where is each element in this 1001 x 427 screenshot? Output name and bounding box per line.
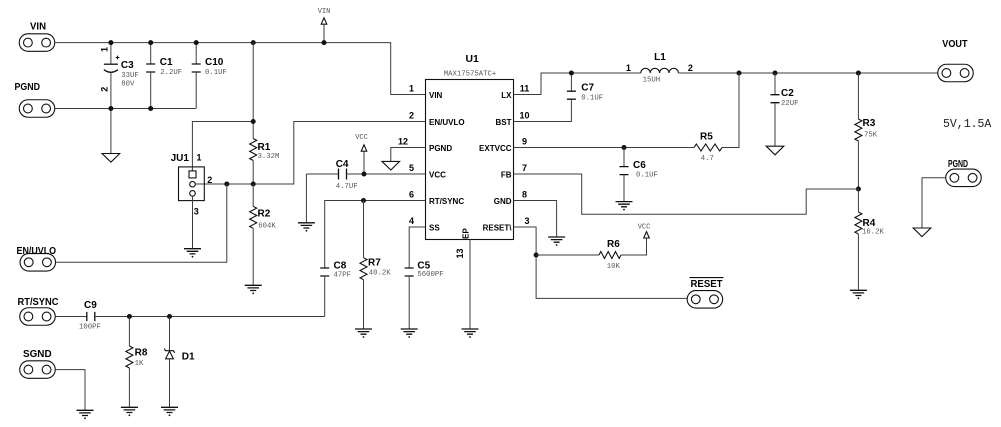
connector VIN (J-VIN) <box>19 22 55 52</box>
svg-text:0.1UF: 0.1UF <box>581 94 603 102</box>
svg-text:VCC: VCC <box>355 134 368 142</box>
svg-text:R5: R5 <box>700 131 713 142</box>
ground below R2 <box>245 285 262 294</box>
svg-text:C7: C7 <box>581 82 594 93</box>
resistor R4 16.2K <box>855 189 885 290</box>
svg-text:3.32M: 3.32M <box>258 153 280 161</box>
wire U1 pin 9 EXTVCC to R5 <box>514 147 695 149</box>
svg-text:RESET: RESET <box>691 279 723 290</box>
ground PGND triangle below C3 <box>102 109 120 163</box>
junction RT/SYNC line at R8 <box>127 314 132 319</box>
connector VOUT <box>938 39 974 82</box>
wire PGND rail <box>55 108 196 110</box>
U1 pin 4 SS <box>409 216 440 233</box>
capacitor C6 0.1UF <box>620 148 658 202</box>
svg-text:12: 12 <box>398 136 408 146</box>
svg-text:6: 6 <box>409 189 414 199</box>
resistor R1 3.32M <box>250 139 280 185</box>
junction top rail at C1 <box>148 40 153 45</box>
svg-text:2: 2 <box>207 175 212 185</box>
U1 pin 8 GND <box>494 189 527 206</box>
wire U1 pin6 RT/SYNC to C8 <box>325 201 426 269</box>
U1 pin 6 RT/SYNC <box>409 189 464 206</box>
U1 pin 9 EXTVCC <box>479 136 527 153</box>
svg-text:4: 4 <box>409 216 414 226</box>
svg-text:0.1UF: 0.1UF <box>636 171 658 179</box>
svg-text:L1: L1 <box>654 52 666 63</box>
capacitor C2 22UF <box>771 73 799 146</box>
svg-text:VCC: VCC <box>429 170 446 179</box>
svg-text:U1: U1 <box>466 54 480 65</box>
connector PGND (left) <box>15 82 55 117</box>
svg-text:C5: C5 <box>417 261 430 272</box>
resistor R2 604K <box>250 184 277 285</box>
capacitor C1 2.2UF <box>146 43 182 109</box>
ground below C4 <box>298 223 315 232</box>
svg-text:33UF: 33UF <box>121 72 139 80</box>
wire RESET net U1 pin 3 to connector <box>514 227 688 298</box>
svg-text:D1: D1 <box>182 351 195 362</box>
svg-text:4.7: 4.7 <box>701 155 714 163</box>
svg-text:VCC: VCC <box>638 223 651 231</box>
ground below R7 <box>355 329 372 338</box>
svg-text:16.2K: 16.2K <box>862 229 885 237</box>
capacitor C3 (polarized 33UF 80V) <box>99 43 138 109</box>
capacitor C5 5600PF <box>405 261 444 330</box>
svg-text:2: 2 <box>688 63 693 73</box>
svg-text:VIN: VIN <box>318 8 331 16</box>
svg-text:3: 3 <box>524 216 529 226</box>
svg-text:40.2K: 40.2K <box>369 269 392 277</box>
svg-text:RT/SYNC: RT/SYNC <box>18 297 59 308</box>
junction bottom rail at C1 <box>148 106 153 111</box>
power ground PGND triangle at U1 pin 12 <box>382 148 426 171</box>
power symbol VIN (top) <box>318 8 331 43</box>
svg-text:100PF: 100PF <box>79 323 101 331</box>
IC U1 MAX17575ATC+ body <box>426 54 514 240</box>
svg-text:R7: R7 <box>368 258 381 269</box>
U1 pin 10 BST <box>496 110 530 127</box>
svg-text:75K: 75K <box>864 132 878 140</box>
svg-text:4.7UF: 4.7UF <box>336 183 358 191</box>
junction FB node at R3/R4 <box>856 187 861 192</box>
resistor R8 1K <box>126 317 148 408</box>
junction JU1 pin2 line at R1/R2 <box>251 182 256 187</box>
junction RESET node at R6 <box>534 253 539 258</box>
wire VOUT rail L1 to VOUT connector <box>678 72 937 74</box>
wire U1 pin4 SS to C5 <box>409 227 425 268</box>
junction pin6 line at R7 <box>361 198 366 203</box>
junction EXTVCC line at C6 <box>622 145 627 150</box>
capacitor C10 0.1UF <box>192 43 227 109</box>
svg-text:0.1UF: 0.1UF <box>205 69 227 77</box>
U1 pin 3 RESET <box>483 216 530 233</box>
svg-text:R1: R1 <box>258 142 271 153</box>
svg-text:22UF: 22UF <box>781 100 799 108</box>
junction VOUT rail at R5 riser <box>737 71 742 76</box>
svg-text:VOUT: VOUT <box>942 39 967 50</box>
junction VOUT rail at R3 <box>856 71 861 76</box>
svg-text:R6: R6 <box>607 239 620 250</box>
inductor L1 15UH <box>626 52 693 85</box>
wire U1 pin 8 GND to ground <box>514 201 557 238</box>
svg-text:7: 7 <box>522 163 527 173</box>
power ground PGND triangle below C2 <box>766 146 784 155</box>
junction top rail at R1 branch <box>251 40 256 45</box>
svg-text:R3: R3 <box>863 118 876 129</box>
svg-text:JU1: JU1 <box>171 153 190 164</box>
svg-text:8: 8 <box>522 189 527 199</box>
svg-text:BST: BST <box>496 118 512 127</box>
ground below JU1 pin 3 <box>184 249 201 258</box>
svg-text:11: 11 <box>520 83 530 93</box>
power ground PGND triangle right <box>913 228 931 237</box>
ground below pin 8 <box>548 237 565 246</box>
U1 pin 2 EN/UVLO <box>409 110 465 127</box>
svg-text:C1: C1 <box>160 57 173 68</box>
svg-text:C2: C2 <box>781 88 794 99</box>
svg-text:10: 10 <box>519 110 529 120</box>
svg-text:RESET\: RESET\ <box>483 223 513 232</box>
wire JU1 pin3 to ground <box>192 196 194 249</box>
ground below EP <box>462 329 479 338</box>
svg-text:2.2UF: 2.2UF <box>160 69 182 77</box>
connector EN/UVLO <box>17 246 57 271</box>
svg-text:VIN: VIN <box>429 91 443 100</box>
wire C4 left to ground <box>305 174 307 223</box>
svg-text:PGND: PGND <box>948 159 968 170</box>
svg-text:15UH: 15UH <box>643 77 661 85</box>
svg-text:RT/SYNC: RT/SYNC <box>429 197 464 206</box>
svg-text:5600PF: 5600PF <box>417 271 443 279</box>
svg-text:C9: C9 <box>84 300 97 311</box>
resistor R6 10K <box>536 238 646 271</box>
ground below D1 <box>161 407 178 416</box>
capacitor C9 100PF (series) <box>55 300 324 331</box>
U1 pin 12 PGND <box>398 136 452 153</box>
U1 pin 11 LX <box>501 83 529 100</box>
svg-text:2: 2 <box>99 87 109 92</box>
svg-text:EXTVCC: EXTVCC <box>479 144 512 153</box>
svg-text:R4: R4 <box>863 218 876 229</box>
svg-text:VIN: VIN <box>30 22 46 33</box>
svg-text:C4: C4 <box>336 159 349 170</box>
svg-text:2: 2 <box>409 110 414 120</box>
diode D1 (zener) <box>164 317 195 408</box>
junction C4 line at VCC <box>362 172 367 177</box>
wire U1 pin 11 LX to L1 <box>514 73 641 95</box>
svg-text:80V: 80V <box>121 81 135 89</box>
svg-text:5V,1.5A: 5V,1.5A <box>943 118 991 131</box>
wire EN/UVLO segment to U1 pin 2 <box>195 122 425 185</box>
svg-text:PGND: PGND <box>429 144 452 153</box>
svg-text:EN/UVLO: EN/UVLO <box>17 246 57 257</box>
svg-text:MAX17575ATC+: MAX17575ATC+ <box>444 71 497 79</box>
resistor R5 4.7 <box>694 73 739 163</box>
U1 pin 7 FB <box>501 163 527 180</box>
ground below SGND <box>77 410 94 419</box>
svg-text:SS: SS <box>429 223 440 232</box>
U1 pin 13 EP pad lead <box>455 228 471 330</box>
svg-text:C8: C8 <box>334 261 347 272</box>
wire SGND to ground <box>55 370 85 411</box>
svg-text:LX: LX <box>501 91 512 100</box>
svg-text:C6: C6 <box>633 160 646 171</box>
svg-text:C10: C10 <box>205 57 224 68</box>
svg-text:EN/UVLO: EN/UVLO <box>429 118 465 127</box>
svg-text:C3: C3 <box>121 60 134 71</box>
svg-text:10K: 10K <box>607 263 621 271</box>
junction top rail at C3 <box>108 40 113 45</box>
svg-text:1: 1 <box>99 47 109 52</box>
capacitor C4 4.7UF (series) <box>306 159 425 191</box>
power symbol VCC at R6 <box>638 223 651 238</box>
svg-text:GND: GND <box>494 197 512 206</box>
svg-text:1: 1 <box>196 152 201 162</box>
junction bottom rail at C3 <box>108 106 113 111</box>
capacitor C8 47PF <box>320 261 351 317</box>
svg-text:EP: EP <box>462 228 471 239</box>
svg-text:3: 3 <box>194 207 199 217</box>
svg-text:1: 1 <box>626 63 631 73</box>
wire FB U1 pin 7 to R3/R4 node <box>514 174 859 214</box>
svg-text:1: 1 <box>409 83 414 93</box>
ground below R4 <box>850 290 867 299</box>
junction top rail at C10 <box>194 40 199 45</box>
svg-text:9: 9 <box>522 136 527 146</box>
svg-text:47PF: 47PF <box>334 271 352 279</box>
svg-text:R2: R2 <box>258 209 271 220</box>
wire VIN branch vertical to R1 <box>252 43 254 139</box>
connector SGND <box>20 349 56 378</box>
ground below R8 <box>121 407 138 416</box>
svg-text:PGND: PGND <box>15 82 41 93</box>
svg-text:13: 13 <box>455 248 465 258</box>
junction RT/SYNC line at D1 <box>167 314 172 319</box>
resistor R7 40.2K <box>360 201 391 330</box>
svg-text:1K: 1K <box>135 360 144 368</box>
ground below C5 <box>401 329 418 338</box>
connector RT/SYNC <box>18 297 59 325</box>
svg-text:SGND: SGND <box>23 349 52 360</box>
svg-text:5: 5 <box>409 163 414 173</box>
wire EN/UVLO segment JU1 pin1 riser <box>192 122 253 172</box>
resistor R3 75K <box>855 73 878 189</box>
svg-text:R8: R8 <box>135 348 148 359</box>
junction JU1 pin2 line at EN/UVLO riser <box>224 182 229 187</box>
wire VIN rail: connector to U1 pin 1 <box>55 43 426 95</box>
connector PGND (right) <box>946 159 982 187</box>
wire PGND right connector to triangle <box>922 178 946 228</box>
U1 pin 5 VCC <box>409 163 446 180</box>
wire EN/UVLO connector to JU1 pin2 line <box>56 184 227 262</box>
connector RESET (output) <box>687 278 723 308</box>
capacitor C7 0.1UF <box>514 73 604 122</box>
ground below C6 <box>616 202 633 211</box>
junction VOUT rail at C2 <box>773 71 778 76</box>
junction top rail at VIN symbol <box>322 40 327 45</box>
junction EN node at R1 top <box>251 119 256 124</box>
jumper JU1 <box>171 152 213 216</box>
U1 pin 1 VIN <box>409 83 443 100</box>
svg-text:604K: 604K <box>258 222 276 230</box>
junction LX rail at C7 <box>569 71 574 76</box>
svg-text:FB: FB <box>501 170 512 179</box>
power symbol VCC at C4 <box>355 134 368 174</box>
